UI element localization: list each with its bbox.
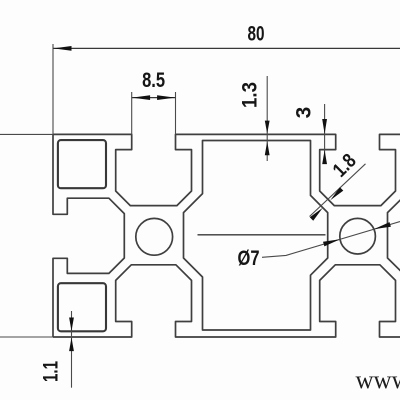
svg-text:3: 3 xyxy=(293,107,316,119)
svg-text:Ø7: Ø7 xyxy=(238,247,260,270)
svg-text:1.3: 1.3 xyxy=(239,82,262,108)
svg-text:80: 80 xyxy=(248,23,265,46)
svg-text:1.1: 1.1 xyxy=(40,361,63,382)
svg-text:8.5: 8.5 xyxy=(142,69,165,92)
svg-text:www.a: www.a xyxy=(356,367,400,394)
